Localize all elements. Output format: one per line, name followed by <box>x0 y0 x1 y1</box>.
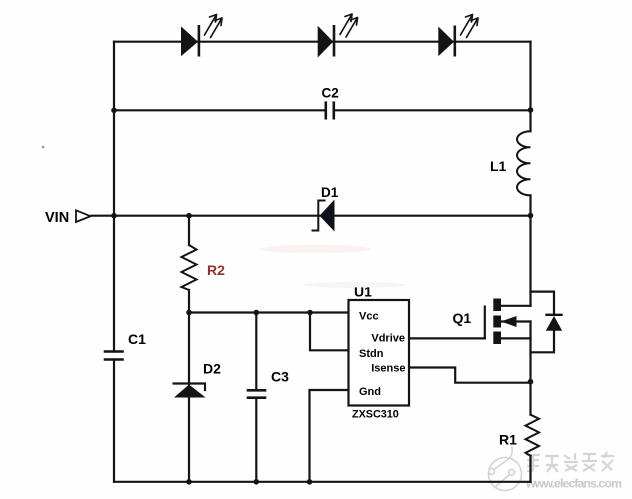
svg-text:C2: C2 <box>322 86 339 101</box>
svg-text:D1: D1 <box>321 185 339 200</box>
svg-text:Q1: Q1 <box>453 310 472 326</box>
svg-text:C3: C3 <box>271 369 289 385</box>
svg-text:Gnd: Gnd <box>359 386 381 398</box>
svg-text:Stdn: Stdn <box>359 348 384 360</box>
svg-text:L1: L1 <box>490 158 507 174</box>
svg-text:C1: C1 <box>128 331 146 347</box>
svg-text:Isense: Isense <box>371 363 405 375</box>
svg-text:Vcc: Vcc <box>359 311 379 323</box>
svg-text:VIN: VIN <box>45 210 69 226</box>
svg-text:R2: R2 <box>207 262 225 278</box>
svg-text:D2: D2 <box>203 361 221 377</box>
svg-text:www.elecfans.com: www.elecfans.com <box>525 477 622 491</box>
svg-text:Vdrive: Vdrive <box>371 333 405 345</box>
svg-text:ZXSC310: ZXSC310 <box>352 409 399 421</box>
svg-text:R1: R1 <box>499 432 517 448</box>
